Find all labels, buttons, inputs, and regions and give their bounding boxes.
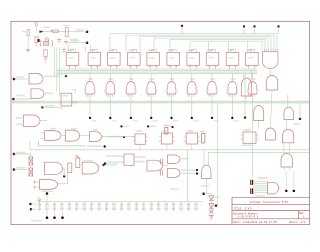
svg-text:1-CD-5*8?-0.1: 1-CD-5*8?-0.1 [238, 215, 259, 219]
svg-text:Voltage Transceiver 5*8?: Voltage Transceiver 5*8? [250, 200, 289, 204]
svg-text:Sheet: 1/1: Sheet: 1/1 [289, 220, 306, 224]
svg-text:Date: 2/20/2011 10:52:47 PM: Date: 2/20/2011 10:52:47 PM [233, 220, 277, 224]
svg-text:TITLE: 5*8?!: TITLE: 5*8?! [233, 206, 252, 210]
